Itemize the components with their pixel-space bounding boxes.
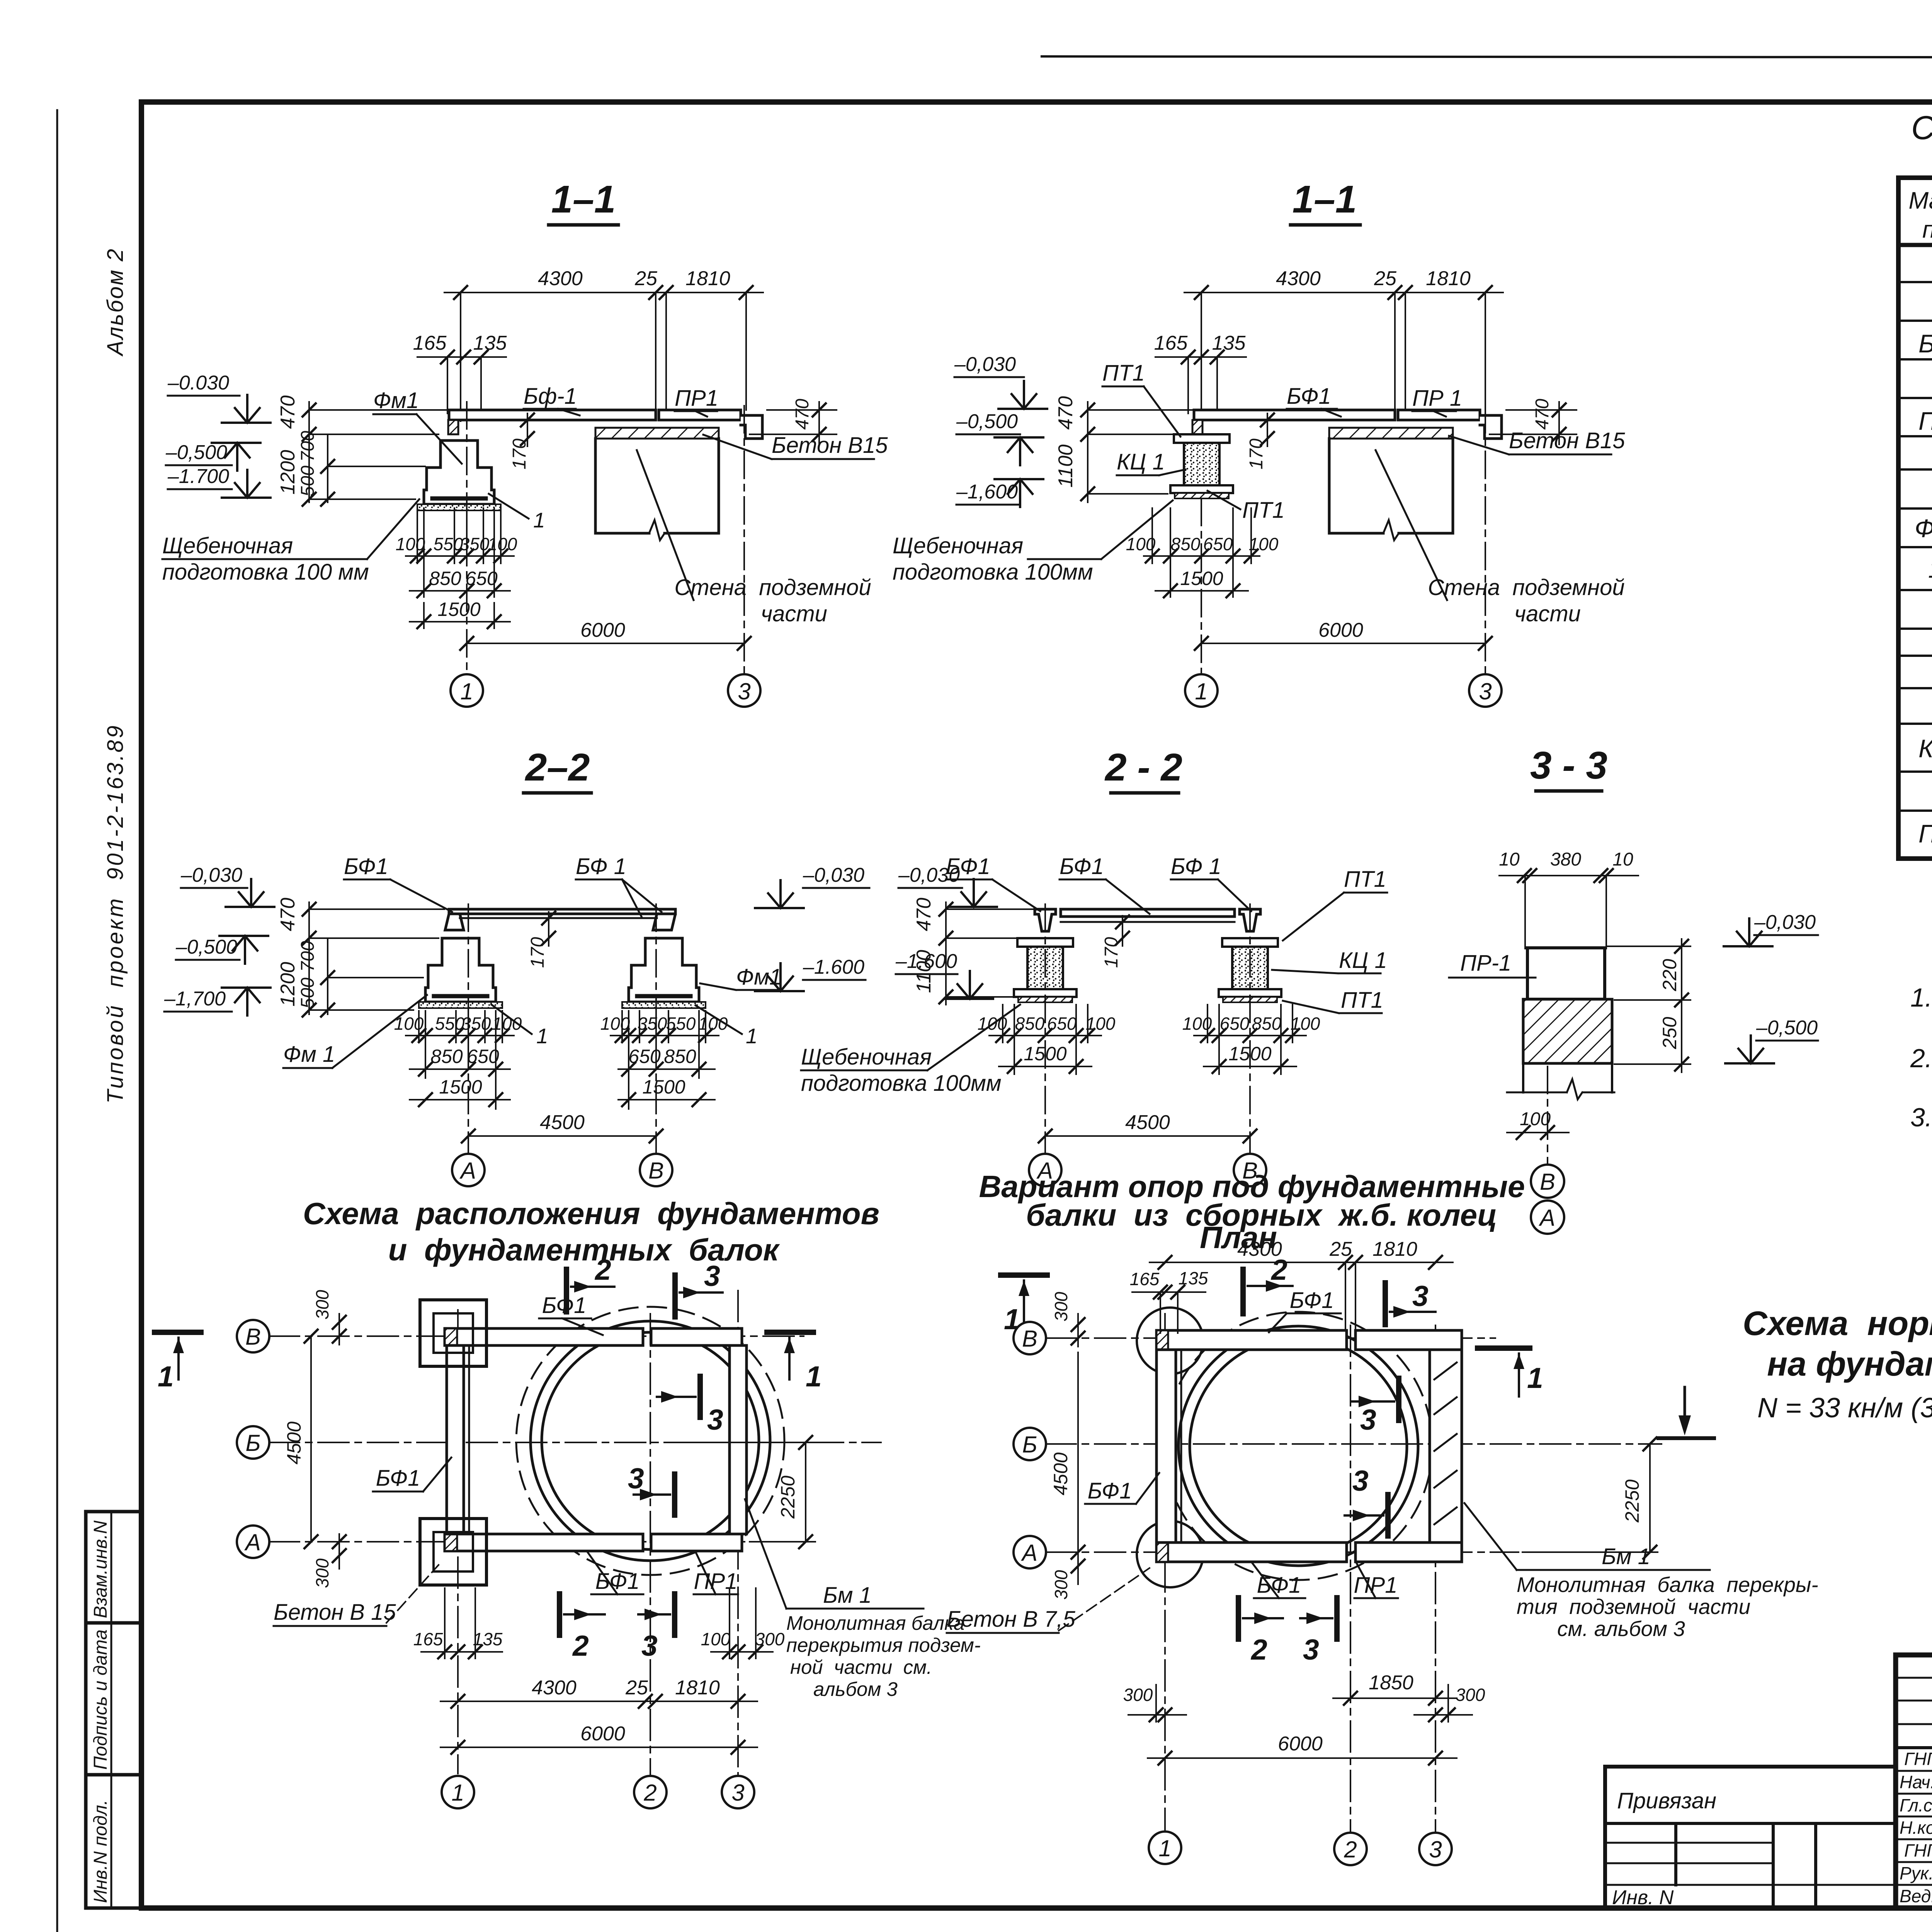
table body texts xyxy=(1915,251,1932,848)
svg-text:–1.700: –1.700 xyxy=(167,465,229,488)
svg-text:300: 300 xyxy=(1123,1685,1153,1705)
section flag 1 right xyxy=(1478,1345,1530,1351)
svg-text:3: 3 xyxy=(1412,1280,1429,1312)
svg-text:100: 100 xyxy=(1182,1014,1212,1034)
svg-text:на фундамент по оси 1: на фундамент по оси 1 xyxy=(1767,1345,1932,1383)
dim 10/380/10 xyxy=(1499,876,1638,949)
grid axis Б horizontal xyxy=(1045,1443,1662,1445)
svg-text:N = 33 кн/м (3,3 тс/м): N = 33 кн/м (3,3 тс/м) xyxy=(1757,1393,1932,1423)
bottom dim chain 100/850/650/100 xyxy=(1144,508,1260,597)
svg-text:–1,700: –1,700 xyxy=(164,988,226,1010)
svg-text:Инв.N подл.: Инв.N подл. xyxy=(90,1800,111,1903)
svg-text:В: В xyxy=(648,1158,664,1184)
svg-text:100: 100 xyxy=(978,1014,1007,1034)
svg-text:1: 1 xyxy=(1527,1362,1543,1394)
svg-text:БФ1: БФ1 xyxy=(946,854,990,879)
axis dash lines xyxy=(466,402,468,674)
main beam bar xyxy=(1061,909,1235,917)
svg-text:1810: 1810 xyxy=(1372,1238,1417,1260)
left vertical dim chain 470/1200 xyxy=(309,402,448,502)
svg-text:850: 850 xyxy=(1171,534,1201,554)
bearing pad hatched xyxy=(1192,420,1202,434)
svg-text:2. Сборные железобетонные эл: 2. Сборные железобетонные элементы уклад… xyxy=(1910,1044,1932,1073)
svg-text:КЦ 1: КЦ 1 xyxy=(1339,948,1387,973)
svg-text:300: 300 xyxy=(755,1629,785,1649)
section flag 1 left xyxy=(1001,1272,1047,1278)
grid axis В horizontal xyxy=(1045,1337,1495,1339)
foundation Фм1 xyxy=(417,440,501,510)
NOTES xyxy=(1910,983,1932,1191)
svg-text:В: В xyxy=(1540,1169,1555,1195)
bottom dims left ring xyxy=(989,1005,1101,1074)
svg-text:ной части см.: ной части см. xyxy=(790,1656,932,1678)
svg-text:подготовка 100мм: подготовка 100мм xyxy=(893,560,1093,585)
svg-text:см. альбом 3: см. альбом 3 xyxy=(1557,1617,1685,1641)
svg-text:650: 650 xyxy=(1203,534,1233,554)
left dim 300 top xyxy=(338,1314,340,1345)
grid circle А xyxy=(452,1154,485,1186)
svg-text:470: 470 xyxy=(1054,396,1077,430)
svg-text:ПТ1: ПТ1 xyxy=(1242,498,1285,523)
svg-text:1850: 1850 xyxy=(1369,1672,1413,1694)
svg-text:165: 165 xyxy=(1154,332,1188,354)
svg-text:165: 165 xyxy=(413,332,447,354)
svg-text:850: 850 xyxy=(1252,1014,1282,1034)
svg-text:3: 3 xyxy=(1303,1633,1319,1666)
svg-text:3: 3 xyxy=(704,1260,720,1292)
left small rows xyxy=(1896,1677,1932,1679)
svg-text:2: 2 xyxy=(1250,1633,1267,1666)
svg-text:25: 25 xyxy=(625,1677,648,1699)
svg-text:Б: Б xyxy=(1022,1432,1037,1458)
signature rows xyxy=(1896,1770,1932,1772)
top beam row В segment 1 xyxy=(1156,1330,1347,1350)
section flag 3 bottom xyxy=(1334,1598,1340,1639)
grid circle 1 xyxy=(1185,674,1218,707)
svg-text:650: 650 xyxy=(1220,1014,1250,1034)
svg-text:100: 100 xyxy=(701,1629,731,1649)
svg-text:1: 1 xyxy=(158,1360,174,1393)
TITLE BLOCK xyxy=(1896,1655,1932,1908)
svg-text:3: 3 xyxy=(1479,679,1492,704)
svg-text:Бетон В15: Бетон В15 xyxy=(772,433,888,458)
svg-text:1810: 1810 xyxy=(675,1677,720,1699)
svg-text:3: 3 xyxy=(707,1403,723,1436)
svg-text:100: 100 xyxy=(396,534,425,554)
section flag 3 top xyxy=(1383,1283,1388,1325)
svg-text:25: 25 xyxy=(634,267,658,290)
foundation Фм1 left xyxy=(419,938,502,1008)
svg-text:БФ1: БФ1 xyxy=(1088,1478,1132,1503)
top dim 165/135 xyxy=(1132,1292,1206,1333)
svg-text:220: 220 xyxy=(1659,959,1680,992)
table header texts xyxy=(1908,187,1932,243)
grid axis 1 vertical xyxy=(1164,1314,1166,1830)
section flag 2 top xyxy=(564,1269,569,1312)
grid axis В horizontal xyxy=(269,1335,804,1337)
svg-text:Бф-1: Бф-1 xyxy=(524,384,577,409)
svg-text:135: 135 xyxy=(473,1629,503,1649)
svg-text:–0,500: –0,500 xyxy=(956,410,1018,433)
svg-text:ГНП: ГНП xyxy=(1904,1749,1932,1769)
svg-text:–1.600: –1.600 xyxy=(803,956,864,978)
svg-text:Монолитная балка: Монолитная балка xyxy=(786,1612,964,1634)
title block outer xyxy=(1896,1655,1932,1908)
svg-text:альбом 3: альбом 3 xyxy=(813,1678,898,1700)
wall below with break xyxy=(1523,1063,1612,1092)
svg-text:1. Кольца опор заполняются: 1. Кольца опор заполняются местным талым… xyxy=(1910,983,1932,1012)
grid circle 3 xyxy=(1469,674,1502,707)
section flag 1 left xyxy=(155,1330,201,1335)
svg-text:–0,030: –0,030 xyxy=(803,864,864,886)
svg-text:ПР1: ПР1 xyxy=(675,386,718,411)
svg-text:БФ1: БФ1 xyxy=(344,854,388,879)
svg-text:1: 1 xyxy=(1158,1835,1171,1861)
grid circle 1 xyxy=(1149,1832,1181,1864)
svg-text:Стена подземной: Стена подземной xyxy=(674,575,871,600)
concrete B15 hatched strip xyxy=(1329,428,1453,439)
svg-text:Н.контр.: Н.контр. xyxy=(1900,1818,1932,1838)
svg-text:Фм1: Фм1 xyxy=(373,388,419,413)
right beam Бм1 vertical (monolithic) xyxy=(1430,1350,1462,1543)
vertical dims 470/1100 xyxy=(1088,402,1192,502)
svg-text:1500: 1500 xyxy=(437,599,480,620)
svg-text:650: 650 xyxy=(467,1046,499,1067)
svg-text:100: 100 xyxy=(600,1014,630,1034)
svg-text:Щебеночная: Щебеночная xyxy=(801,1044,932,1070)
svg-text:470: 470 xyxy=(277,395,299,429)
grid circle В xyxy=(1234,1154,1266,1186)
dim 6000 xyxy=(440,1747,757,1748)
grid axis А horizontal xyxy=(1045,1551,1519,1553)
dimension line 4300/25/1810 xyxy=(444,293,763,421)
svg-text:6000: 6000 xyxy=(580,619,625,641)
svg-text:1200: 1200 xyxy=(277,962,299,1007)
svg-text:ПТ1: ПТ1 xyxy=(1344,867,1386,892)
svg-text:БФ1: БФ1 xyxy=(1918,329,1932,358)
dimension 165/135 xyxy=(417,357,506,413)
svg-text:1100: 1100 xyxy=(913,950,935,993)
grid circle А xyxy=(1029,1154,1061,1186)
foundation Фм1 plan top-left xyxy=(420,1300,486,1366)
right end hook xyxy=(741,415,762,439)
svg-text:500: 500 xyxy=(298,978,318,1009)
svg-text:100: 100 xyxy=(1520,1109,1551,1129)
svg-text:3 - 3: 3 - 3 xyxy=(1530,744,1607,787)
svg-text:1810: 1810 xyxy=(1426,267,1471,290)
section flag 3 top xyxy=(672,1275,678,1317)
grid circle 2 xyxy=(634,1776,667,1808)
svg-text:550: 550 xyxy=(666,1014,696,1034)
svg-text:850: 850 xyxy=(1015,1014,1045,1034)
svg-text:А: А xyxy=(459,1158,476,1184)
dimension line 4300/25/1810 xyxy=(1184,293,1503,419)
spec table header bottom line xyxy=(1898,243,1932,247)
svg-text:4500: 4500 xyxy=(1050,1452,1071,1495)
bearing pad hatched xyxy=(448,420,458,434)
svg-text:Щебеночная: Щебеночная xyxy=(162,533,293,558)
svg-text:подготовка 100мм: подготовка 100мм xyxy=(801,1071,1002,1096)
svg-text:2–2: 2–2 xyxy=(525,746,590,789)
right beam Бм1 axis 3 vertical xyxy=(730,1345,747,1534)
left dim 300 top xyxy=(1077,1314,1079,1347)
svg-text:ПР1: ПР1 xyxy=(694,1569,738,1594)
svg-text:700: 700 xyxy=(298,431,318,462)
svg-text:1100: 1100 xyxy=(1054,444,1077,488)
svg-text:1500: 1500 xyxy=(439,1076,482,1098)
grid axis 1 vertical xyxy=(457,1310,459,1774)
bottom dims left foundation xyxy=(406,1011,514,1109)
svg-text:–0,500: –0,500 xyxy=(1756,1017,1818,1039)
grid circle 3 xyxy=(1419,1833,1452,1865)
svg-text:650: 650 xyxy=(1047,1014,1077,1034)
grid circle Б xyxy=(1014,1428,1046,1460)
svg-text:Стена подземной: Стена подземной xyxy=(1428,575,1624,600)
svg-text:тия подземной части: тия подземной части xyxy=(1517,1595,1750,1619)
ring support circle bottom-left xyxy=(1137,1521,1203,1587)
svg-text:подготовка 100 мм: подготовка 100 мм xyxy=(162,560,369,585)
axis dash lines xyxy=(1044,904,1046,1153)
svg-text:Спецификация элементов к схе: Спецификация элементов к схеме расположе… xyxy=(1911,109,1932,146)
svg-text:1: 1 xyxy=(533,508,545,532)
svg-text:4500: 4500 xyxy=(283,1422,305,1464)
svg-text:300: 300 xyxy=(1456,1685,1485,1705)
svg-text:2: 2 xyxy=(1344,1837,1357,1862)
svg-text:3: 3 xyxy=(628,1462,644,1495)
svg-text:100: 100 xyxy=(488,534,517,554)
left vertical dims 470/1200/700/500 xyxy=(309,902,444,1014)
grid axis Б horizontal xyxy=(269,1442,881,1443)
beam БФ-1 xyxy=(449,410,656,420)
bottom dim 300 left xyxy=(1128,1714,1186,1716)
svg-text:В: В xyxy=(245,1324,261,1350)
svg-text:2: 2 xyxy=(572,1629,589,1662)
svg-text:1: 1 xyxy=(746,1024,758,1048)
svg-text:Рук. гр.: Рук. гр. xyxy=(1900,1863,1932,1883)
svg-text:Нач.отд.: Нач.отд. xyxy=(1900,1772,1932,1792)
svg-text:Щебеночная: Щебеночная xyxy=(893,533,1023,558)
svg-text:Гл.спец.: Гл.спец. xyxy=(1900,1795,1932,1815)
foundation Фм1 right (mirrored) xyxy=(622,938,706,1008)
svg-text:–0,030: –0,030 xyxy=(1754,911,1816,934)
svg-text:4300: 4300 xyxy=(532,1677,577,1699)
svg-text:25: 25 xyxy=(1374,267,1397,290)
svg-text:100: 100 xyxy=(394,1014,424,1034)
svg-text:А: А xyxy=(1021,1540,1037,1566)
svg-text:350: 350 xyxy=(461,1014,491,1034)
svg-text:Б: Б xyxy=(245,1430,260,1456)
svg-text:170: 170 xyxy=(527,937,548,968)
svg-text:КЦ 1: КЦ 1 xyxy=(1918,734,1932,763)
svg-text:165: 165 xyxy=(413,1629,443,1649)
svg-text:ПТ1: ПТ1 xyxy=(1102,361,1145,386)
svg-text:БФ1: БФ1 xyxy=(542,1293,587,1318)
svg-text:700: 700 xyxy=(298,941,318,972)
svg-text:4300: 4300 xyxy=(538,267,583,290)
svg-text:–0.030: –0.030 xyxy=(167,372,229,394)
dim 6000 xyxy=(1201,643,1485,644)
section flag 2 top xyxy=(1240,1269,1246,1314)
grid axis А horizontal xyxy=(269,1541,815,1543)
dimension 165/135 xyxy=(1155,357,1246,413)
svg-text:350: 350 xyxy=(638,1014,667,1034)
right 470 dim xyxy=(750,402,837,444)
svg-text:135: 135 xyxy=(473,332,507,354)
grid axis 3 vertical xyxy=(737,1291,739,1776)
title block texts xyxy=(1900,1748,1932,1906)
spec table outer border xyxy=(1898,178,1932,859)
svg-text:2: 2 xyxy=(1270,1253,1287,1286)
left dim 4500 xyxy=(310,1336,312,1542)
svg-text:470: 470 xyxy=(1532,399,1553,430)
svg-text:Монолитная балка перекры-: Монолитная балка перекры- xyxy=(1517,1573,1818,1597)
svg-text:100: 100 xyxy=(1086,1014,1116,1034)
svg-text:Бетон В 7,5: Бетон В 7,5 xyxy=(947,1607,1075,1632)
svg-text:2: 2 xyxy=(594,1253,611,1286)
svg-text:части: части xyxy=(761,601,827,626)
shaft wall outer circle xyxy=(531,1321,770,1561)
axis dash xyxy=(1547,1066,1548,1164)
svg-text:2 - 2: 2 - 2 xyxy=(1104,746,1182,789)
170 dim xyxy=(1116,915,1129,929)
svg-text:Подпись и дата: Подпись и дата xyxy=(90,1629,111,1770)
grid circle В xyxy=(1014,1322,1046,1354)
grid circle А xyxy=(1014,1536,1046,1568)
shaft wall inner circle xyxy=(1190,1337,1407,1554)
grid circle 2 xyxy=(1334,1833,1367,1865)
svg-text:2: 2 xyxy=(643,1780,656,1806)
section flag 1 right xyxy=(767,1330,813,1335)
svg-text:Фм 1: Фм 1 xyxy=(283,1042,335,1067)
svg-text:А: А xyxy=(1539,1205,1555,1231)
svg-text:Инв. N: Инв. N xyxy=(1612,1886,1674,1909)
svg-text:135: 135 xyxy=(1212,332,1246,354)
underground wall xyxy=(1329,439,1453,533)
dim 1500 xyxy=(1155,590,1248,592)
svg-text:300: 300 xyxy=(312,1558,332,1588)
dim 4300/25/1810 xyxy=(440,1701,757,1702)
svg-text:ГНП: ГНП xyxy=(1904,1840,1932,1861)
svg-text:КЦ 1: КЦ 1 xyxy=(1117,449,1165,474)
bottom dims right ring xyxy=(1194,1005,1306,1074)
section flag 2 bottom xyxy=(557,1594,562,1635)
svg-text:Схема нормативных нагрузок: Схема нормативных нагрузок xyxy=(1743,1304,1932,1342)
svg-text:850: 850 xyxy=(430,1046,463,1067)
svg-text:10: 10 xyxy=(1612,849,1633,870)
ring support КЦ1 left xyxy=(1014,938,1077,1002)
svg-text:3: 3 xyxy=(641,1629,658,1662)
svg-text:БФ1: БФ1 xyxy=(1287,384,1331,409)
svg-text:3: 3 xyxy=(1352,1464,1369,1497)
svg-text:Схема расположения фундамент: Схема расположения фундаментов xyxy=(303,1196,879,1231)
axis dash lines xyxy=(1201,498,1202,674)
svg-text:3: 3 xyxy=(738,679,750,704)
svg-text:Бм 1: Бм 1 xyxy=(823,1583,872,1608)
svg-text:6000: 6000 xyxy=(1278,1733,1323,1755)
svg-text:1–1: 1–1 xyxy=(1293,178,1357,221)
svg-text:Альбом 2: Альбом 2 xyxy=(103,248,128,357)
dim 6000 xyxy=(467,643,744,644)
bottom dim 165/135 xyxy=(421,1588,502,1658)
top beam row В segment 2 xyxy=(1355,1330,1462,1350)
svg-text:850: 850 xyxy=(429,568,461,589)
dim 6000 xyxy=(1148,1757,1457,1759)
section flag 3 inner lower xyxy=(672,1474,677,1515)
svg-text:–0,030: –0,030 xyxy=(180,864,242,886)
svg-text:1: 1 xyxy=(460,679,473,704)
svg-text:2250: 2250 xyxy=(777,1476,799,1519)
beam T-end left xyxy=(1035,909,1056,931)
section flag 3 inner upper xyxy=(1396,1378,1401,1420)
ring support КЦ1 right xyxy=(1219,938,1281,1002)
svg-text:1500: 1500 xyxy=(642,1076,685,1098)
right dims 220/250 xyxy=(1607,939,1690,1072)
svg-text:4500: 4500 xyxy=(540,1111,585,1134)
svg-text:3. При варианте в мокрых гр: 3. При варианте в мокрых грунтах опоры п… xyxy=(1910,1103,1932,1132)
svg-text:1: 1 xyxy=(451,1780,464,1806)
svg-text:470: 470 xyxy=(277,898,299,931)
svg-text:500: 500 xyxy=(298,466,318,497)
svg-text:10: 10 xyxy=(1499,849,1520,870)
svg-text:25: 25 xyxy=(1329,1238,1352,1260)
svg-text:ПР 1: ПР 1 xyxy=(1412,386,1462,411)
bottom beam БФ1 row А segment 1 xyxy=(445,1534,643,1551)
svg-text:ПР1: ПР1 xyxy=(1354,1573,1398,1598)
svg-text:БФ 1: БФ 1 xyxy=(576,854,626,879)
lintel ПР1 xyxy=(659,410,741,420)
dim chain 850/650 xyxy=(410,590,510,592)
svg-text:165: 165 xyxy=(1130,1269,1160,1289)
left dim 300 bottom xyxy=(1077,1552,1079,1584)
dim 4500 xyxy=(1045,1135,1250,1137)
svg-text:170: 170 xyxy=(1101,937,1122,968)
stamp cell Взам.инв.N xyxy=(86,1512,141,1623)
top beam ПР1 row В segment 2 xyxy=(651,1328,742,1345)
beam БФ1 xyxy=(1194,410,1395,420)
top-left beam end hatch xyxy=(445,1328,457,1345)
svg-text:4500: 4500 xyxy=(1125,1111,1170,1134)
svg-text:250: 250 xyxy=(1659,1017,1680,1049)
bottom dims right foundation xyxy=(611,1011,719,1109)
grid circle 3 xyxy=(722,1776,754,1808)
svg-text:170: 170 xyxy=(509,439,530,469)
shaft wall inner circle xyxy=(542,1332,759,1549)
bottom dim 300 right xyxy=(1414,1714,1472,1716)
svg-text:3: 3 xyxy=(731,1780,744,1806)
grid circle 3 xyxy=(728,674,760,707)
svg-text:Бетон В15: Бетон В15 xyxy=(1509,428,1625,453)
svg-text:ПР-1: ПР-1 xyxy=(1460,951,1511,976)
lintel ПР1 xyxy=(1398,410,1480,420)
svg-text:6000: 6000 xyxy=(580,1723,625,1745)
svg-text:перекрытия подзем-: перекрытия подзем- xyxy=(786,1634,981,1656)
svg-text:1200: 1200 xyxy=(277,450,299,495)
svg-text:4300: 4300 xyxy=(1276,267,1321,290)
stamp cell Подпись и дата xyxy=(86,1623,141,1775)
svg-text:1810: 1810 xyxy=(685,267,730,290)
svg-text:100: 100 xyxy=(492,1014,522,1034)
170 dim xyxy=(1261,413,1274,427)
svg-text:470: 470 xyxy=(792,399,813,430)
section flag 2 bottom xyxy=(1236,1598,1241,1639)
svg-text:100: 100 xyxy=(1291,1014,1320,1034)
svg-text:100: 100 xyxy=(1249,534,1279,554)
svg-text:350: 350 xyxy=(460,534,490,554)
svg-text:В: В xyxy=(1022,1326,1037,1352)
right dim 2250 xyxy=(1649,1444,1651,1552)
bottom beam ПР1 row А segment 2 xyxy=(651,1534,742,1551)
svg-text:470: 470 xyxy=(913,898,935,931)
